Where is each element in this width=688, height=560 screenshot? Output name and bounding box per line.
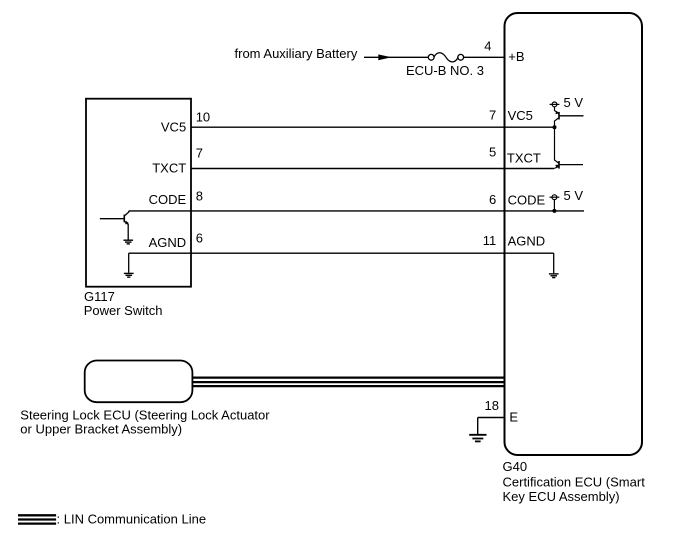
svg-text:or Upper Bracket Assembly): or Upper Bracket Assembly) — [20, 421, 182, 436]
svg-text:7: 7 — [489, 107, 496, 122]
svg-text:Steering Lock ECU (Steering Lo: Steering Lock ECU (Steering Lock Actuato… — [20, 408, 270, 423]
svg-text:Power Switch: Power Switch — [84, 303, 163, 318]
svg-text:E: E — [509, 409, 518, 424]
svg-text:11: 11 — [483, 233, 497, 248]
svg-text:ECU-B NO. 3: ECU-B NO. 3 — [406, 63, 484, 78]
svg-text:6: 6 — [489, 192, 496, 207]
svg-text:AGND: AGND — [149, 235, 187, 250]
svg-text:Certification ECU (Smart: Certification ECU (Smart — [503, 475, 646, 490]
svg-text:TXCT: TXCT — [507, 151, 541, 166]
svg-text:TXCT: TXCT — [152, 160, 186, 175]
svg-text:: LIN Communication Line: : LIN Communication Line — [57, 511, 207, 526]
svg-text:5 V: 5 V — [564, 95, 584, 110]
svg-text:10: 10 — [196, 109, 210, 124]
svg-text:6: 6 — [196, 231, 203, 246]
svg-text:VC5: VC5 — [508, 108, 533, 123]
svg-text:Key ECU Assembly): Key ECU Assembly) — [503, 489, 620, 504]
svg-text:+B: +B — [508, 49, 524, 64]
svg-text:G117: G117 — [84, 289, 115, 304]
svg-text:AGND: AGND — [508, 234, 546, 249]
svg-text:7: 7 — [196, 146, 203, 161]
svg-text:5 V: 5 V — [564, 188, 584, 203]
svg-text:5: 5 — [489, 145, 496, 160]
svg-text:CODE: CODE — [149, 192, 187, 207]
svg-text:G40: G40 — [503, 459, 528, 474]
svg-text:4: 4 — [484, 39, 491, 54]
svg-text:VC5: VC5 — [161, 119, 186, 134]
svg-text:CODE: CODE — [508, 193, 546, 208]
svg-text:8: 8 — [196, 188, 203, 203]
svg-text:18: 18 — [485, 398, 499, 413]
svg-text:from Auxiliary Battery: from Auxiliary Battery — [235, 46, 358, 61]
